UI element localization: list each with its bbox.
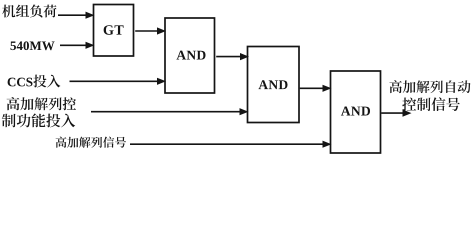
input label 机组负荷 (unit load) bbox=[2, 4, 56, 17]
output label 控制信号 (line 2) bbox=[402, 97, 460, 111]
comparator block GT (unit load > 540MW) bbox=[94, 5, 134, 57]
wire CCS投入 to AND U1 input 2 bbox=[70, 78, 167, 85]
label AND (U3) bbox=[341, 107, 370, 116]
input label CCS投入 (CCS engaged) bbox=[8, 75, 61, 88]
AND gate U1 bbox=[165, 18, 215, 93]
wire GT output to AND U1 input 1 bbox=[135, 27, 166, 34]
wire 高加解列信号 to AND U3 input 2 bbox=[130, 141, 332, 148]
AND gate U3 bbox=[331, 71, 381, 153]
input label 高加解列控 (line 1) bbox=[7, 97, 76, 110]
wire AND U3 output (高加解列自动控制信号) bbox=[381, 110, 411, 117]
label AND (U1) bbox=[176, 51, 205, 60]
wire AND U2 output to AND U3 input 1 bbox=[300, 85, 332, 92]
wire 机组负荷 to GT input 1 bbox=[58, 12, 95, 19]
input label 高加解列信号 (HP heater trip signal) bbox=[56, 137, 126, 148]
wire 540MW to GT input 2 bbox=[60, 42, 95, 49]
wire 高加解列控制功能投入 to AND U2 input 2 bbox=[91, 108, 249, 115]
label AND (U2) bbox=[258, 80, 287, 89]
input label 制功能投入 (line 2) bbox=[2, 113, 75, 127]
AND gate U2 bbox=[248, 47, 300, 123]
label GT bbox=[104, 25, 124, 35]
input label 540MW setpoint bbox=[10, 41, 54, 50]
output label 高加解列自动 (line 1) bbox=[389, 80, 470, 93]
wire AND U1 output to AND U2 input 1 bbox=[216, 53, 249, 60]
